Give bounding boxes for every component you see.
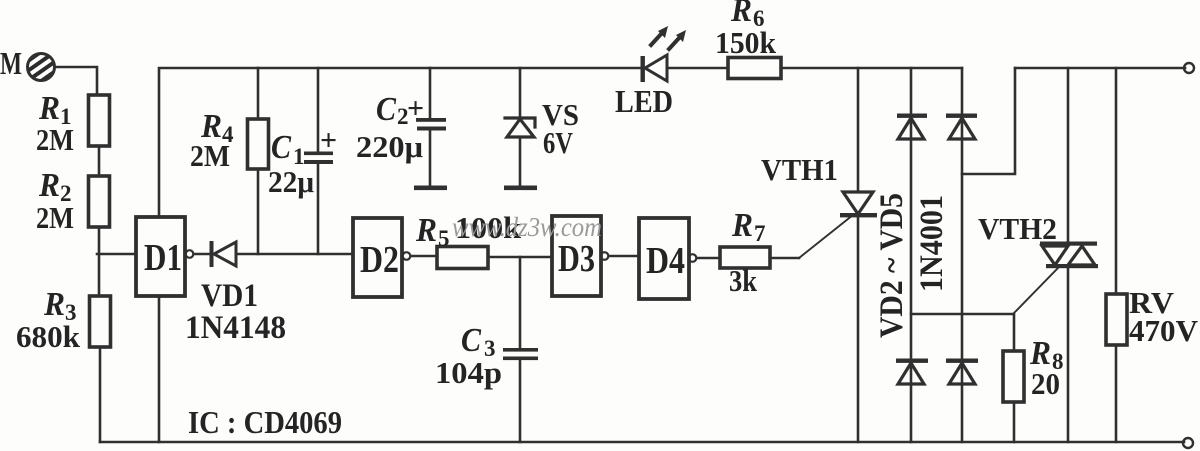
svg-text:1N4001: 1N4001 [914,195,950,292]
bridge column left (VD2/VD4) [910,68,913,442]
capacitor C2 [429,68,432,118]
svg-text:22μ: 22μ [268,164,314,199]
bridge AC jog to right rail [962,68,1015,174]
thyristor VTH1 [857,68,860,192]
wire D3 to D4 [609,255,639,258]
svg-text:+: + [320,124,337,157]
wire D1 bottom to rail [158,296,161,442]
svg-text:VD2 ~ VD5: VD2 ~ VD5 [874,193,910,338]
resistor R1 [89,95,110,146]
svg-text:1N4148: 1N4148 [185,310,286,346]
resistor R5 [437,247,488,269]
bridge mid wire to R8/VTH2 gate [911,314,1014,351]
svg-text:M: M [0,45,22,81]
svg-text:www.dz3w.com: www.dz3w.com [452,212,602,242]
svg-text:5: 5 [438,226,450,251]
svg-text:C: C [271,129,291,166]
svg-text:VTH2: VTH2 [978,211,1057,246]
capacitor C1 [317,68,320,152]
svg-text:220μ: 220μ [356,129,423,164]
svg-text:VD1: VD1 [201,278,258,314]
svg-text:D4: D4 [646,240,685,282]
svg-text:IC : CD4069: IC : CD4069 [188,404,342,440]
resistor R2 [89,176,110,227]
svg-text:R: R [43,286,65,323]
ground bar of C2 [414,186,447,191]
diode VD top-left [897,114,927,140]
svg-text:LED: LED [615,83,673,119]
svg-text:20: 20 [1031,366,1060,401]
svg-text:6V: 6V [543,125,573,160]
wire M to R1 [55,67,97,95]
top rail left segment [159,68,641,216]
inverter D2 [353,218,402,297]
svg-text:+: + [407,92,424,125]
resistor R3 [90,296,111,347]
wire LED to R6 [667,67,728,70]
svg-text:C: C [376,91,396,128]
svg-text:C: C [461,322,481,359]
LED arrows [651,26,686,49]
terminal top right [1184,63,1194,73]
node: wire to D1 input [97,253,136,256]
bottom rail [100,441,1184,444]
svg-text:D2: D2 [360,239,399,281]
wire R3 to bottom rail [99,347,102,442]
resistor R7 [720,247,770,268]
wire VD1 to D2 [236,253,353,256]
diode VD bottom-left [896,359,928,385]
wire R1-R2 [98,146,101,176]
wire D1 out to VD1 [194,253,210,256]
inverter D4 [639,218,689,299]
resistor R6 [728,58,781,79]
diode VD1 [210,241,237,267]
top rail right of R6 [781,67,962,70]
svg-text:D1: D1 [144,237,182,279]
diode VD top-right [946,114,977,140]
svg-text:3k: 3k [729,263,758,298]
capacitor C3 [519,257,522,349]
svg-text:R: R [731,207,753,244]
bridge column right (VD3/VD5) [961,68,964,442]
svg-text:2M: 2M [190,138,230,173]
terminal bottom right [1183,438,1193,448]
diode VD bottom-right [946,359,978,385]
svg-text:680k: 680k [16,319,81,354]
svg-text:VTH1: VTH1 [761,152,838,187]
resistor R4 [257,68,260,119]
LED [641,55,668,82]
wire R2-R3 [98,227,101,296]
wire R5 to D3 with C3 tap [488,256,552,259]
inverter D3 [552,216,601,296]
terminal M hatched electrode [28,54,55,81]
inverter D1 [136,217,185,296]
svg-text:R: R [415,212,437,249]
triac VTH2 [1067,68,1070,243]
svg-text:2M: 2M [36,122,74,157]
wire R7 to VTH1 gate [770,257,799,260]
svg-text:2M: 2M [36,200,74,235]
gate VTH2 [1014,268,1058,313]
varistor RV [1115,68,1118,294]
wire D2 to R5 [411,255,437,258]
svg-text:104p: 104p [435,355,502,390]
svg-text:470V: 470V [1129,313,1199,348]
svg-text:D3: D3 [558,238,595,280]
ground bar of VS [504,186,537,191]
svg-text:150k: 150k [715,25,777,60]
zener VS [519,68,522,118]
svg-text:R: R [38,167,60,204]
svg-text:7: 7 [754,221,766,246]
resistor R8 [1003,351,1024,402]
wire D4 to R7 [697,257,720,260]
top rail right segment [1015,67,1185,70]
